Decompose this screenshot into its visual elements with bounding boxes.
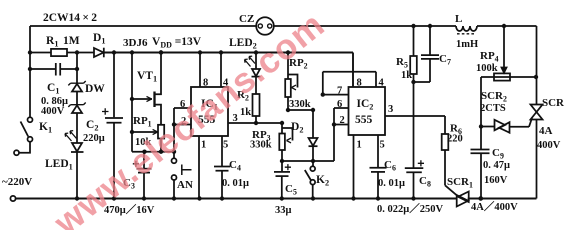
svg-text:1: 1 — [357, 140, 362, 151]
svg-text:330k: 330k — [250, 140, 272, 151]
svg-text:0. 47μ: 0. 47μ — [483, 160, 510, 171]
svg-text:LED1: LED1 — [45, 158, 73, 172]
svg-text:DW: DW — [85, 83, 105, 95]
svg-text:L: L — [455, 13, 462, 25]
svg-text:VDD =13V: VDD =13V — [152, 36, 202, 50]
svg-text:2CW14 × 2: 2CW14 × 2 — [43, 12, 97, 24]
svg-text:100k: 100k — [476, 63, 498, 74]
svg-text:CZ: CZ — [239, 13, 254, 25]
svg-text:1k: 1k — [401, 70, 412, 81]
svg-text:8: 8 — [357, 78, 362, 89]
svg-text:220: 220 — [447, 134, 463, 145]
svg-text:1M: 1M — [63, 35, 80, 47]
svg-text:555: 555 — [355, 114, 373, 126]
svg-text:AN: AN — [177, 179, 193, 191]
svg-text:6: 6 — [337, 99, 342, 110]
svg-text:220μ: 220μ — [83, 133, 105, 144]
svg-text:0. 01μ: 0. 01μ — [222, 178, 249, 189]
svg-text:3: 3 — [388, 104, 393, 115]
svg-text:3DJ6: 3DJ6 — [123, 37, 148, 49]
svg-text:2: 2 — [340, 115, 345, 126]
svg-text:1k: 1k — [240, 107, 251, 118]
svg-text:0. 022μ／250V: 0. 022μ／250V — [377, 202, 443, 215]
svg-text:1mH: 1mH — [456, 39, 478, 50]
svg-text:3: 3 — [233, 113, 238, 124]
svg-text:400V: 400V — [537, 140, 561, 151]
svg-text:2CTS: 2CTS — [480, 103, 506, 114]
svg-text:160V: 160V — [484, 175, 508, 186]
svg-text:400V: 400V — [41, 106, 65, 117]
svg-text:SCR: SCR — [542, 97, 565, 109]
svg-text:~220V: ~220V — [2, 176, 32, 188]
svg-text:4: 4 — [379, 78, 385, 89]
svg-text:0. 01μ: 0. 01μ — [378, 178, 405, 189]
svg-text:33μ: 33μ — [275, 205, 292, 216]
svg-text:5: 5 — [223, 140, 228, 151]
svg-text:1: 1 — [201, 140, 206, 151]
svg-text:5: 5 — [380, 140, 385, 151]
svg-text:7: 7 — [337, 86, 342, 97]
svg-text:4A: 4A — [539, 125, 553, 137]
svg-text:330k: 330k — [289, 99, 311, 110]
svg-text:4A／400V: 4A／400V — [471, 200, 518, 213]
